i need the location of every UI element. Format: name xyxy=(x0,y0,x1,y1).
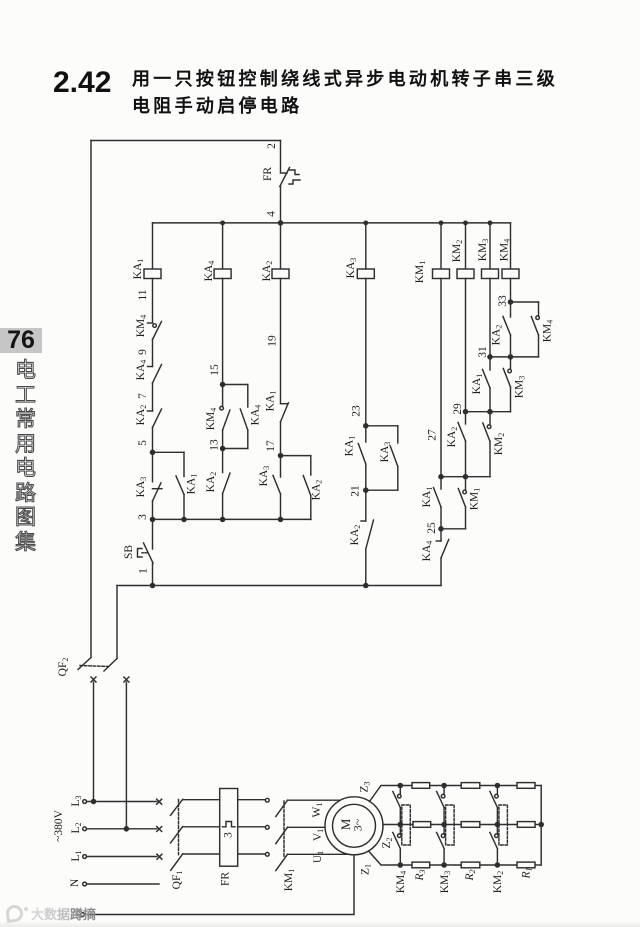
contactor KM1 pole L1 xyxy=(265,852,348,870)
svg-text:21: 21 xyxy=(350,485,362,497)
svg-text:KM4: KM4 xyxy=(135,315,148,338)
node 29 line xyxy=(463,410,510,414)
svg-text:KA2: KA2 xyxy=(446,427,459,448)
svg-text:KA3: KA3 xyxy=(345,258,358,279)
wire QF2 to L2 xyxy=(124,682,128,831)
node 23 branch line xyxy=(364,424,398,428)
resistor R2 middle xyxy=(461,822,480,828)
svg-text:31: 31 xyxy=(477,346,489,358)
wire 5 segment xyxy=(152,428,154,453)
wire left rail xyxy=(90,141,92,658)
svg-text:KA4: KA4 xyxy=(421,541,434,562)
wire FR to KM1 pole L2 xyxy=(238,826,266,828)
NO contact KA3 (branch 4 parallel) xyxy=(379,426,398,490)
resistor label R2 xyxy=(464,869,477,881)
svg-text:SB: SB xyxy=(123,545,135,559)
wire KA2 coil down (branch 3) xyxy=(280,279,282,404)
breaker QF1 pole L2 xyxy=(171,827,220,843)
wire KA3 to node 3 xyxy=(152,501,154,519)
svg-text:11: 11 xyxy=(137,289,149,300)
node 31 line xyxy=(488,355,539,359)
pushbutton SB xyxy=(123,519,153,573)
relay coil KA3 xyxy=(345,223,374,279)
svg-text:KA2: KA2 xyxy=(135,405,148,426)
svg-text:KA2: KA2 xyxy=(491,325,504,346)
wire QF2 to L3 xyxy=(91,682,95,804)
contactor coil KM1 xyxy=(414,223,450,283)
svg-text:QF2: QF2 xyxy=(57,658,70,677)
svg-text:R2: R2 xyxy=(464,869,477,881)
svg-text:3: 3 xyxy=(223,832,235,838)
svg-text:KA1: KA1 xyxy=(344,436,357,457)
NO contact KA4 (branch 2 parallel) xyxy=(240,385,262,449)
resistor R1 bottom xyxy=(517,862,535,868)
junction dots on top bus xyxy=(221,221,492,224)
node 4 xyxy=(266,211,283,225)
resistor label R3 xyxy=(414,869,427,881)
breaker QF1 pole L3 xyxy=(171,799,220,815)
terminal x marks below QF2 xyxy=(91,677,129,682)
contactor KM1 pole L3 xyxy=(265,798,340,816)
svg-text:KM1: KM1 xyxy=(283,869,296,892)
wire FR to node 4 xyxy=(280,187,282,223)
svg-text:9: 9 xyxy=(137,349,149,355)
svg-text:KA1: KA1 xyxy=(132,259,145,280)
node 13 line xyxy=(209,439,248,451)
contactor KM1 pole L2 xyxy=(265,825,325,843)
svg-text:L2: L2 xyxy=(70,822,83,833)
rotor middle row wires xyxy=(413,824,541,826)
wire KA1 coil to contact chain xyxy=(152,279,154,324)
wire KM1 coil to node 27 xyxy=(440,279,442,477)
wire top bus xyxy=(153,222,511,224)
svg-text:W1: W1 xyxy=(311,803,324,818)
svg-text:KM2: KM2 xyxy=(451,240,464,263)
svg-text:V1: V1 xyxy=(312,829,325,841)
wire KA3 coil to node 23 (branch 4) xyxy=(365,279,367,426)
rotor right end vertical xyxy=(539,786,543,866)
svg-text:KA3: KA3 xyxy=(135,477,148,498)
NC contact KA4 (KM1 branch) xyxy=(421,529,449,562)
svg-text:KA1: KA1 xyxy=(421,487,434,508)
resistor R3 bottom xyxy=(412,862,430,868)
svg-text:KM3: KM3 xyxy=(439,871,452,894)
svg-text:KA3: KA3 xyxy=(379,442,392,463)
resistor R2 top xyxy=(461,783,480,789)
svg-text:N: N xyxy=(69,878,81,887)
svg-text:3~: 3~ xyxy=(351,818,365,831)
wire FR to KM1 pole L3 xyxy=(238,799,266,801)
wire FR to KM1 pole L1 xyxy=(238,853,266,855)
svg-text:19: 19 xyxy=(267,335,279,347)
svg-text:27: 27 xyxy=(427,429,439,441)
relay coil KA4 xyxy=(203,223,231,281)
svg-text:U1: U1 xyxy=(312,851,325,863)
resistor R1 middle xyxy=(517,822,535,828)
wire 9 segment xyxy=(152,340,154,367)
svg-text:Z3: Z3 xyxy=(359,781,372,792)
wire to node 17 xyxy=(280,422,282,456)
node 5 branch line xyxy=(150,450,184,454)
svg-text:KM1: KM1 xyxy=(469,488,482,511)
phase label L3 xyxy=(70,795,87,806)
resistor label R1 xyxy=(521,867,534,879)
wire KA4 coil to node 15 xyxy=(222,279,224,385)
contactor coil KM3 xyxy=(477,223,499,279)
wire L2 xyxy=(87,828,157,830)
svg-text:KA3: KA3 xyxy=(258,466,271,487)
resistor R1 top xyxy=(517,783,535,789)
svg-text:KA2: KA2 xyxy=(261,261,274,282)
contactor KM3 column (rotor) xyxy=(437,783,455,893)
rotor bottom row wires xyxy=(412,864,541,866)
NO contact KA2 (branch 2) xyxy=(205,449,230,494)
svg-text:7: 7 xyxy=(137,393,149,399)
NO contact KA2 (KM2 branch) xyxy=(446,412,466,477)
resistor R3 middle xyxy=(413,822,431,828)
NC contact KA2 (branch 4) xyxy=(349,490,374,549)
NC contact KA2 (branch 1) xyxy=(135,405,162,428)
svg-text:KM4: KM4 xyxy=(395,871,408,894)
svg-text:33: 33 xyxy=(497,295,509,307)
svg-text:4: 4 xyxy=(266,211,278,217)
svg-text:KA2: KA2 xyxy=(311,480,324,501)
svg-text:KM4: KM4 xyxy=(542,320,555,343)
NO contact KA1 (parallel, branch 1) xyxy=(176,452,198,519)
resistor R2 bottom xyxy=(461,862,480,868)
thermal relay FR box xyxy=(220,789,238,887)
wire KM2 coil to node 29 xyxy=(465,279,467,412)
svg-text:5: 5 xyxy=(137,440,149,446)
wire 7 segment xyxy=(152,383,154,411)
NC contact KA4 (branch 1) xyxy=(135,360,162,383)
wire to bottom bus (KM1 branch) xyxy=(440,558,442,586)
svg-text:23: 23 xyxy=(351,405,363,417)
svg-text:L1: L1 xyxy=(70,850,83,861)
neutral N xyxy=(69,878,159,887)
svg-text:QF1: QF1 xyxy=(171,871,184,890)
relay coil KA2 xyxy=(261,223,289,281)
svg-text:KM4: KM4 xyxy=(499,239,512,262)
NO contact KM3 (KM4 branch) xyxy=(503,357,526,412)
contactor coil KM4 xyxy=(499,223,520,279)
NO contact KA1 (KM3 branch) xyxy=(471,357,490,412)
NC contact KM4 (branch 1) xyxy=(135,315,162,340)
thermal contact FR xyxy=(262,167,300,187)
svg-text:3: 3 xyxy=(137,514,149,520)
svg-text:FR: FR xyxy=(262,167,274,181)
svg-text:1: 1 xyxy=(138,568,150,574)
svg-text:KM1: KM1 xyxy=(414,261,427,284)
node 17 branch line xyxy=(265,440,311,458)
node 15 branch line xyxy=(221,382,248,386)
node 33 line xyxy=(508,300,538,304)
NO contact KA3 (branch 3) xyxy=(258,456,281,520)
svg-text:KM2: KM2 xyxy=(492,871,505,894)
breaker QF2 (2-pole) xyxy=(57,586,117,677)
svg-text:KA1: KA1 xyxy=(471,374,484,395)
svg-text:KM3: KM3 xyxy=(477,239,490,262)
node 3 bus xyxy=(137,514,311,522)
NO contact KA2 (branch 3 parallel) xyxy=(303,456,323,520)
svg-text:15: 15 xyxy=(209,364,221,376)
node 2 label xyxy=(266,143,278,149)
NO contact KA1 (branch 4) xyxy=(344,426,366,490)
contactor KM4 column (rotor) xyxy=(393,783,411,893)
svg-text:Z1: Z1 xyxy=(360,864,373,875)
motor star-point lead xyxy=(81,855,354,917)
NO contact KM1 (KM2 branch) xyxy=(458,477,481,529)
wire FR drop xyxy=(280,141,282,173)
svg-text:KM2: KM2 xyxy=(493,433,506,456)
wire 2 (top horizontal) xyxy=(91,140,281,142)
wire L3 xyxy=(87,801,157,803)
wire to node 3 bus (branch 2) xyxy=(222,494,224,520)
rotor top row wires xyxy=(412,785,541,787)
NO contact KA1 (KM1 branch) xyxy=(421,477,441,529)
rotor lead Z3 xyxy=(359,781,413,801)
stator terminal labels xyxy=(311,803,325,864)
supply label ~380V xyxy=(53,809,65,841)
svg-text:KA2: KA2 xyxy=(205,472,218,493)
motor M 3~ xyxy=(325,797,383,855)
svg-text:KA2: KA2 xyxy=(349,525,362,546)
wire L1 xyxy=(87,856,157,858)
svg-text:2: 2 xyxy=(266,143,278,149)
svg-text:KA4: KA4 xyxy=(135,360,148,381)
QF1 linkage xyxy=(171,800,184,890)
wire KM3 coil to node 31 xyxy=(489,279,491,357)
NO contact KM2 (KM3 branch) xyxy=(483,412,506,477)
wire SB to bottom bus xyxy=(152,563,154,586)
bottom bus xyxy=(117,583,441,587)
NO contact KM4 (branch 2) xyxy=(205,385,230,449)
phase label L2 xyxy=(70,822,87,833)
rotor lead Z1 xyxy=(360,852,413,876)
svg-text:R1: R1 xyxy=(521,867,534,879)
phase label L1 xyxy=(70,850,87,861)
svg-text:KA4: KA4 xyxy=(250,405,263,426)
svg-text:17: 17 xyxy=(265,440,277,452)
svg-text:KM4: KM4 xyxy=(205,408,218,431)
rotor lead Z2 xyxy=(381,825,413,849)
svg-text:L3: L3 xyxy=(70,795,83,806)
resistor R3 top xyxy=(412,783,430,789)
NO contact KA3 (branch 1) xyxy=(135,452,162,501)
svg-text:13: 13 xyxy=(209,439,221,451)
wire KM4 coil to node 33 xyxy=(510,279,512,303)
node 11 label xyxy=(137,289,149,300)
NO contact KA1 (branch 3) xyxy=(265,391,289,422)
svg-text:~380V: ~380V xyxy=(53,809,65,841)
breaker QF1 pole L1 xyxy=(171,854,220,871)
node 27 line xyxy=(439,475,490,479)
svg-text:25: 25 xyxy=(426,522,438,534)
svg-text:FR: FR xyxy=(220,872,232,886)
node 25 line xyxy=(426,522,466,534)
svg-text:KA1: KA1 xyxy=(186,474,199,495)
svg-text:29: 29 xyxy=(452,403,464,415)
svg-text:R3: R3 xyxy=(414,869,427,881)
svg-text:KA1: KA1 xyxy=(265,391,278,412)
NO contact KA2 (KM4 branch) xyxy=(491,302,511,357)
svg-text:Z2: Z2 xyxy=(381,837,394,848)
NO contact KM4 (parallel, right column) xyxy=(531,302,554,357)
contactor KM2 column (rotor) xyxy=(490,783,508,893)
contactor coil KM2 xyxy=(451,223,474,279)
wire to bottom bus (branch 4) xyxy=(365,549,367,586)
node 21 line xyxy=(350,485,398,497)
svg-text:KM3: KM3 xyxy=(514,376,527,399)
KM1 linkage xyxy=(283,801,296,891)
svg-text:KA4: KA4 xyxy=(203,261,216,282)
terminal x marks at QF1 xyxy=(157,799,162,859)
relay coil KA1 xyxy=(132,223,161,279)
